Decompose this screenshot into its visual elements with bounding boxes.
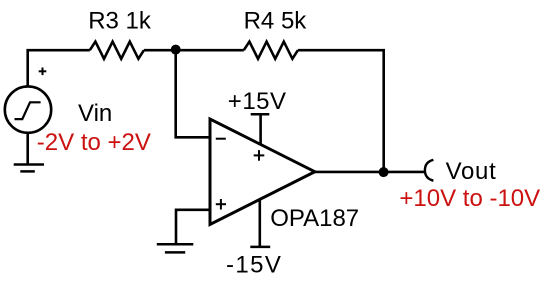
svg-text:-15V: -15V — [226, 251, 282, 278]
svg-text:+10V to -10V: +10V to -10V — [399, 185, 540, 212]
svg-text:Vout: Vout — [446, 158, 497, 185]
svg-text:Vin: Vin — [78, 100, 112, 127]
svg-text:OPA187: OPA187 — [270, 205, 359, 232]
svg-text:R4 5k: R4 5k — [244, 8, 308, 35]
svg-text:-2V to +2V: -2V to +2V — [37, 129, 151, 156]
svg-text:+15V: +15V — [228, 88, 287, 115]
svg-text:R3 1k: R3 1k — [88, 8, 152, 35]
